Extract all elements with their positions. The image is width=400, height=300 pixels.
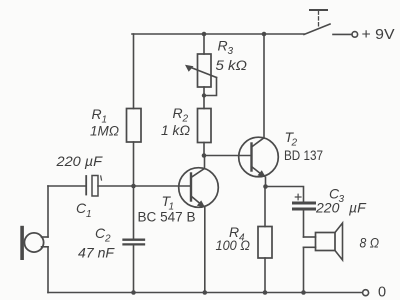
wire: T1 collector up to node A bbox=[204, 156, 206, 169]
capacitor C3 plate bottom bbox=[294, 208, 315, 211]
transistor T2 emitter lead with arrow bbox=[252, 167, 266, 178]
svg-text:2: 2 bbox=[104, 234, 111, 245]
svg-text:BC 547 B: BC 547 B bbox=[138, 210, 196, 225]
capacitor C1 plate left bbox=[85, 176, 87, 195]
wire: C1 left down to microphone bbox=[47, 186, 49, 237]
wire: rail down to R3 bbox=[203, 34, 205, 54]
junction: rail / C2 bbox=[131, 290, 136, 295]
wire: T2 collector up to rail bbox=[263, 34, 265, 138]
wire: R4 to 0V rail bbox=[264, 258, 266, 293]
wire: speaker top stub bbox=[304, 236, 316, 238]
transistor T2 collector lead bbox=[252, 138, 265, 147]
wire: R2 to node A (T1 collector / T2 base) bbox=[203, 143, 205, 156]
resistor R2 body bbox=[198, 109, 212, 143]
wire: node B1 down to C2 bbox=[133, 186, 135, 239]
label: T2 bbox=[285, 129, 298, 149]
wire: C2 to 0V rail bbox=[133, 246, 135, 293]
svg-text:+ 9V: + 9V bbox=[362, 26, 395, 43]
capacitor C2 plate bottom bbox=[124, 243, 145, 245]
wire: microphone to 0V rail bbox=[47, 247, 49, 293]
microphone MIC1 membrane bar bbox=[20, 226, 24, 260]
wire: node E2 to C3 bbox=[266, 187, 304, 202]
terminal: 0V open circle bbox=[363, 290, 369, 296]
terminal: +9V open circle bbox=[352, 32, 358, 38]
wire: node B1 to T1 base bbox=[134, 185, 192, 187]
wire: node A to T2 base bbox=[204, 155, 252, 157]
junction: node B1 (R1 / C1 / C2 / T1 base) bbox=[131, 184, 136, 189]
svg-text:220 µF: 220 µF bbox=[55, 153, 103, 169]
svg-text:3: 3 bbox=[339, 194, 345, 205]
capacitor C3 plate top bbox=[294, 202, 315, 205]
speaker LS1 body bbox=[316, 233, 336, 251]
junction: rail / speaker bbox=[301, 290, 306, 295]
label: R1 bbox=[92, 106, 108, 126]
wire: +9V top rail bbox=[132, 33, 304, 35]
trimmer R3 body bbox=[198, 54, 212, 87]
svg-text:8 Ω: 8 Ω bbox=[360, 235, 380, 251]
transistor T1 collector lead bbox=[191, 169, 205, 178]
transistor T1 emitter lead with arrow bbox=[191, 196, 205, 208]
wire: speaker to 0V rail bbox=[303, 247, 305, 292]
wire: mic branch to C1 bbox=[48, 185, 86, 187]
transistor T1 circle bbox=[179, 168, 219, 208]
label: C2 bbox=[95, 225, 111, 245]
capacitor C2 plate top bbox=[124, 239, 145, 241]
wire: rail down to R1 bbox=[133, 34, 135, 109]
svg-text:0: 0 bbox=[378, 285, 386, 300]
label: C1 bbox=[76, 200, 92, 220]
transistor T1 base bar bbox=[190, 174, 192, 201]
wire: R3 to R2 bbox=[203, 87, 205, 109]
svg-text:3: 3 bbox=[228, 46, 234, 57]
label: C3 bbox=[329, 186, 345, 206]
resistor R4 body bbox=[258, 227, 272, 259]
svg-text:47 nF: 47 nF bbox=[78, 245, 115, 261]
svg-text:1 kΩ: 1 kΩ bbox=[161, 122, 190, 138]
svg-text:R: R bbox=[173, 105, 183, 121]
svg-text:BD 137: BD 137 bbox=[284, 148, 323, 163]
switch S1 actuator dashed link bbox=[318, 11, 320, 28]
label: R4 bbox=[229, 224, 245, 244]
switch S1 push-button actuator bar bbox=[310, 9, 327, 11]
capacitor C3 polarity + bbox=[295, 194, 301, 200]
svg-text:1: 1 bbox=[86, 209, 92, 220]
label: T1 bbox=[162, 193, 175, 213]
capacitor C1 plate right (electrolytic box) bbox=[92, 176, 98, 197]
wire: switch to +9V terminal bbox=[333, 33, 352, 35]
svg-text:µF: µF bbox=[349, 200, 367, 216]
junction: node A bbox=[202, 153, 207, 158]
svg-text:R: R bbox=[92, 106, 102, 122]
wire: T2 emitter to node E2 bbox=[265, 177, 267, 186]
wire: C3 to speaker bbox=[303, 211, 305, 238]
resistor R1 body bbox=[127, 109, 142, 143]
wire: microphone bottom stub bbox=[42, 246, 49, 248]
transistor T2 base bar bbox=[250, 144, 252, 171]
svg-text:R: R bbox=[218, 38, 228, 54]
label: R3 bbox=[218, 38, 234, 58]
capacitor C1 polarity tick bbox=[100, 176, 103, 180]
transistor T2 circle bbox=[239, 137, 279, 177]
svg-text:2: 2 bbox=[291, 138, 298, 149]
wire: R3 wiper return (right and down to bottom terminal) bbox=[204, 78, 217, 96]
wire: T1 emitter down to 0V rail bbox=[204, 208, 206, 293]
speaker LS1 cone bbox=[335, 223, 343, 260]
junction: rail / R2-R3 branch bbox=[202, 32, 207, 37]
label: R2 bbox=[173, 105, 189, 125]
wire: microphone top stub bbox=[42, 236, 49, 238]
svg-text:220: 220 bbox=[315, 200, 340, 216]
wire: C1 to node B1 bbox=[98, 185, 134, 187]
svg-text:5 kΩ: 5 kΩ bbox=[216, 57, 248, 73]
microphone MIC1 circle bbox=[24, 233, 43, 252]
junction: rail / T2 collector branch bbox=[262, 32, 267, 37]
junction: rail / T1 emitter bbox=[203, 290, 208, 295]
switch S1 lever bbox=[304, 24, 330, 35]
wire: 0V bottom rail bbox=[48, 292, 362, 294]
trimmer R3 wiper arrow bbox=[185, 65, 217, 78]
label: 220 µF value of C3 bbox=[315, 200, 367, 216]
wire: R1 to base node B1 bbox=[133, 142, 135, 186]
wire: speaker bottom stub bbox=[304, 246, 316, 248]
junction: R3 bottom / wiper bbox=[202, 93, 206, 97]
svg-text:100 Ω: 100 Ω bbox=[216, 237, 251, 253]
junction: rail / R4 bbox=[263, 290, 268, 295]
junction: node E2 (emitter / R4 / C3) bbox=[263, 184, 268, 189]
wire: node E2 down to R4 bbox=[264, 187, 266, 227]
svg-text:1MΩ: 1MΩ bbox=[90, 123, 119, 139]
